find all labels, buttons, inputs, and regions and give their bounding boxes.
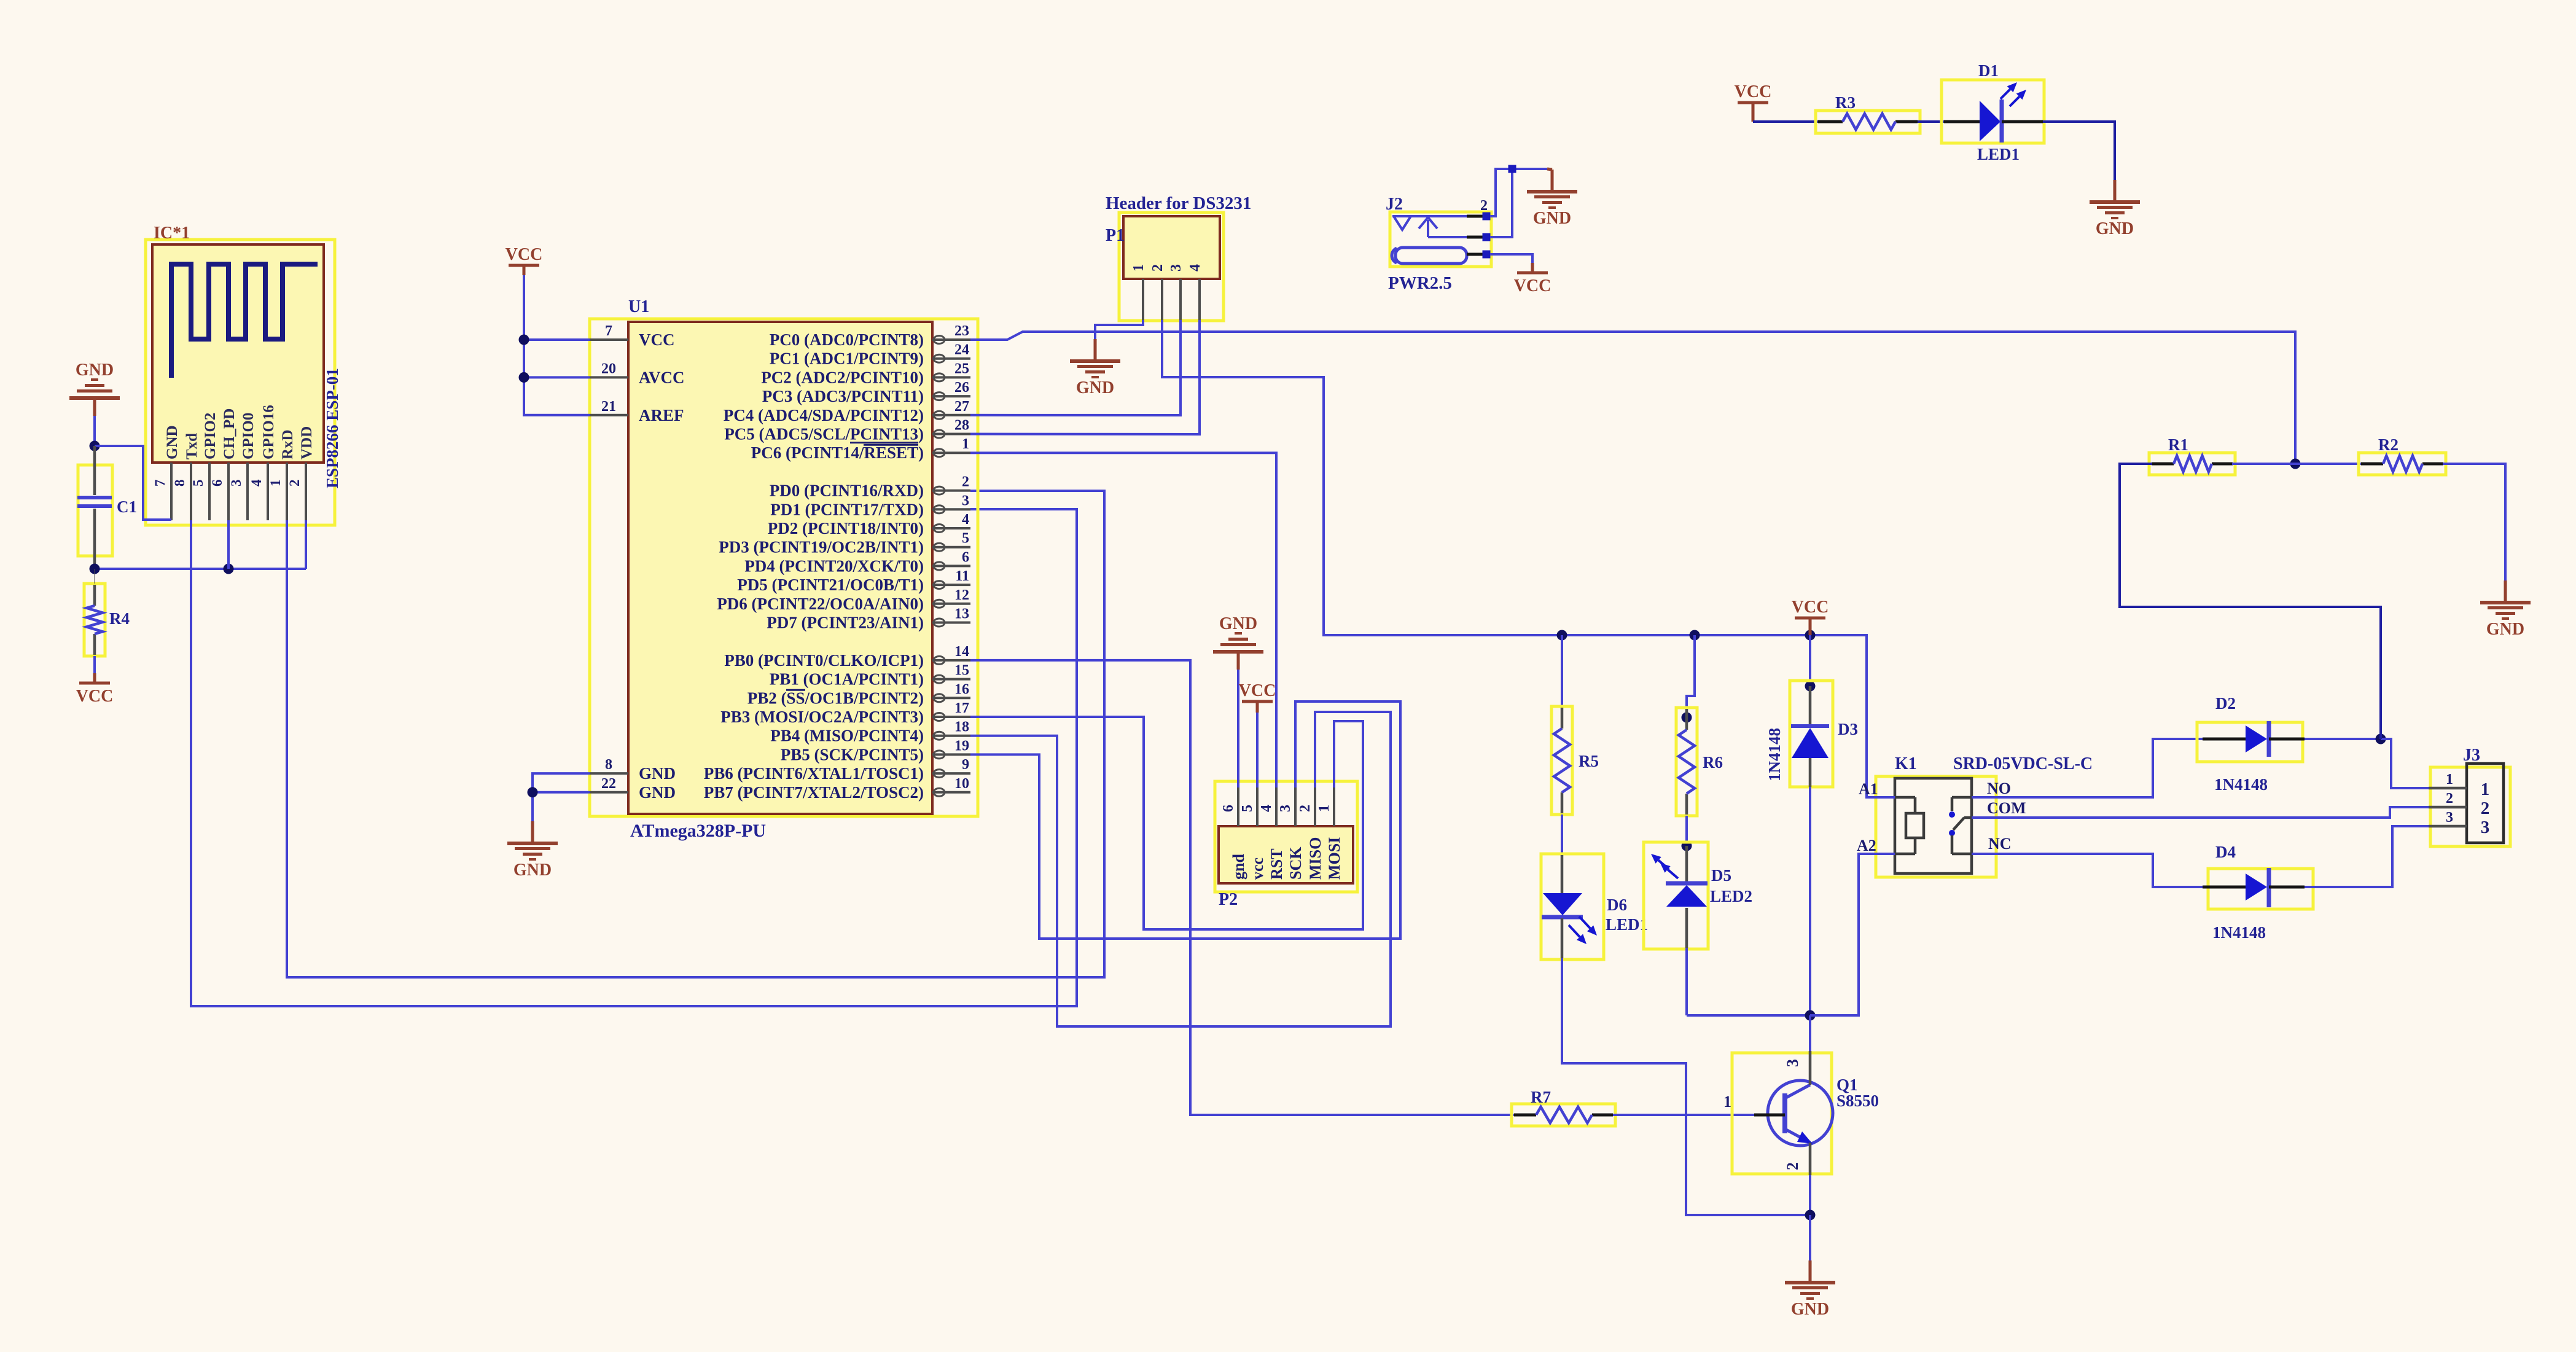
wire NC to D4 <box>1972 854 2203 887</box>
wire R7 to Q1 base <box>1613 1114 1754 1116</box>
node GND/pin22 <box>528 787 538 797</box>
svg-text:VCC: VCC <box>1792 598 1829 617</box>
svg-text:LED1: LED1 <box>1977 145 2020 163</box>
svg-text:4: 4 <box>249 479 264 486</box>
svg-text:8: 8 <box>605 757 612 773</box>
ESP pin 4 (GPIO16) <box>249 405 277 520</box>
svg-text:VCC: VCC <box>1239 681 1276 700</box>
svg-text:GND: GND <box>76 361 114 380</box>
U1 pin 18 PB4 <box>770 719 970 745</box>
wire J2 pin1 to VCC <box>1490 254 1532 264</box>
ground below P1 <box>1070 339 1120 397</box>
node VCC/pin20 <box>519 372 529 383</box>
svg-text:2: 2 <box>2481 799 2490 818</box>
U1 pin 8 GND <box>590 757 676 783</box>
svg-text:1: 1 <box>1723 1093 1731 1111</box>
wire emitter node rail <box>1687 1014 1859 1017</box>
svg-text:4: 4 <box>962 512 969 528</box>
svg-text:GPIO16: GPIO16 <box>260 405 277 459</box>
svg-text:GPIO2: GPIO2 <box>202 413 219 459</box>
svg-text:4: 4 <box>1259 805 1274 812</box>
svg-text:5: 5 <box>962 531 969 547</box>
U1 pin 9 PB6 <box>704 757 970 783</box>
wire emitter to node <box>1809 1015 1811 1051</box>
wire collector node to ground <box>1809 1215 1811 1260</box>
P1 pin 1 <box>1131 264 1147 320</box>
wire D6 to collector node <box>1562 958 1810 1215</box>
svg-text:7: 7 <box>152 480 168 487</box>
svg-text:13: 13 <box>954 606 969 622</box>
wire P2 MOSI to PB3 <box>970 717 1363 929</box>
svg-text:LED2: LED2 <box>1710 887 1752 905</box>
resistor R1 <box>2149 436 2235 475</box>
node VCC/pin7 <box>519 335 529 345</box>
svg-text:SCK: SCK <box>1287 846 1305 880</box>
svg-text:AREF: AREF <box>639 406 684 424</box>
relay K1 highlight <box>1876 776 1996 877</box>
svg-text:1: 1 <box>2481 780 2490 799</box>
underline on PCINT13 (PC5) <box>850 442 918 444</box>
U1 pin 4 PD2 <box>768 512 970 537</box>
wire P2 SCK to PB5 <box>970 701 1400 939</box>
svg-text:5: 5 <box>1239 805 1255 812</box>
ground for J2 <box>1547 169 1552 170</box>
svg-text:R2: R2 <box>2378 436 2398 454</box>
U1 pin 28 PC5 <box>724 418 970 444</box>
P2 pin 1 (MOSI) <box>1316 787 1343 880</box>
ESP pin 7 (GND) <box>152 425 181 520</box>
U1 pin 13 PD7 <box>767 606 970 632</box>
svg-text:11: 11 <box>955 568 969 584</box>
wire R4 top lead <box>94 569 95 584</box>
svg-text:R4: R4 <box>109 609 130 628</box>
ground below Q1 <box>1785 1260 1835 1319</box>
wire D5 to emitter node <box>1685 948 1688 1015</box>
svg-text:6: 6 <box>962 549 969 565</box>
svg-text:PB7 (PCINT7/XTAL2/TOSC2): PB7 (PCINT7/XTAL2/TOSC2) <box>704 783 924 802</box>
header P2 highlight <box>1215 781 1357 892</box>
node rail/R5 <box>1557 630 1567 641</box>
header P1 (DS3231) highlight <box>1119 213 1224 321</box>
capacitor C1 <box>77 446 137 569</box>
P2 pin 6 (gnd) <box>1220 787 1247 880</box>
U1 pin 24 PC1 <box>770 342 970 368</box>
svg-text:6: 6 <box>1220 805 1236 812</box>
wire P2 gnd pin <box>1237 670 1239 787</box>
wire VCC/CH_PD/VDD node rail <box>95 568 306 570</box>
LED D5 <box>1644 842 1752 949</box>
U1 pin 27 PC4 <box>724 399 970 424</box>
svg-text:16: 16 <box>954 681 969 697</box>
ground below LED D1 <box>2090 180 2140 238</box>
U1 pin 25 PC2 <box>761 361 970 386</box>
wire COM to J3 pin2 <box>1972 807 2429 818</box>
wire P2 vcc pin <box>1256 713 1259 787</box>
svg-text:14: 14 <box>954 644 969 660</box>
svg-text:CH_PD: CH_PD <box>221 408 238 459</box>
wire VCC rail to U1 pins 7/20/21 <box>523 265 526 275</box>
J3 pin 2 <box>2429 791 2489 818</box>
svg-text:18: 18 <box>954 719 969 735</box>
svg-text:SRD-05VDC-SL-C: SRD-05VDC-SL-C <box>1953 754 2093 773</box>
svg-text:9: 9 <box>962 757 969 773</box>
svg-text:4: 4 <box>1187 264 1203 272</box>
node C1/R4 junction <box>90 564 100 574</box>
svg-text:GPIO0: GPIO0 <box>240 413 257 459</box>
svg-text:3: 3 <box>962 493 969 509</box>
svg-text:R6: R6 <box>1703 753 1723 772</box>
connector J3 highlight <box>2430 767 2510 846</box>
U1 pin 12 PD6 <box>717 587 970 613</box>
wire D3 to emitter node <box>1809 787 1811 1015</box>
svg-text:PD6 (PCINT22/OC0A/AIN0): PD6 (PCINT22/OC0A/AIN0) <box>717 595 924 613</box>
ESP pin 3 (GPIO0) <box>228 413 257 520</box>
svg-text:GND: GND <box>1533 209 1571 228</box>
wire P1 pin2 to LED/relay rail <box>1162 320 1562 635</box>
J2 pin 1 <box>1467 253 1483 256</box>
svg-text:26: 26 <box>954 380 969 396</box>
svg-text:C1: C1 <box>117 498 137 516</box>
svg-text:2: 2 <box>1150 264 1166 272</box>
svg-text:1: 1 <box>268 480 283 487</box>
wire R5 to D6 <box>1561 815 1563 855</box>
wire PB0 to R7 <box>970 660 1514 1115</box>
svg-text:VCC: VCC <box>505 245 543 264</box>
P1 pin 4 <box>1187 264 1203 320</box>
ground GND near ESP <box>69 361 120 416</box>
U1 pin 21 AREF <box>590 399 684 424</box>
svg-text:8: 8 <box>172 480 187 487</box>
ATmega328P U1 highlight box <box>590 319 978 816</box>
svg-text:1N4148: 1N4148 <box>1765 728 1784 781</box>
P2 pin 4 (RST) <box>1259 787 1286 880</box>
svg-text:S8550: S8550 <box>1836 1092 1879 1110</box>
U1 pin 5 PD3 <box>719 531 970 557</box>
VCC supply below J2 <box>1514 263 1551 295</box>
svg-text:24: 24 <box>954 342 969 358</box>
svg-text:K1: K1 <box>1895 754 1917 773</box>
node J2 ground junction <box>1509 165 1516 173</box>
wire VCC to R3 <box>1753 120 1818 123</box>
svg-text:27: 27 <box>954 399 969 415</box>
diode D3 1N4148 <box>1765 681 1858 787</box>
ground right of J2 <box>1527 170 1577 228</box>
VCC supply above P2 <box>1239 681 1276 711</box>
wire ESP RxD to PD0 <box>287 491 1104 977</box>
svg-text:vcc: vcc <box>1249 858 1267 880</box>
svg-text:1: 1 <box>1316 805 1332 812</box>
svg-text:D1: D1 <box>1978 61 1999 80</box>
svg-text:PC4 (ADC4/SDA/PCINT12): PC4 (ADC4/SDA/PCINT12) <box>724 406 924 424</box>
wire D4 to J3 pin3 <box>2305 826 2429 887</box>
svg-text:GND: GND <box>2486 620 2524 639</box>
svg-text:2: 2 <box>287 480 302 487</box>
U1 pin 17 PB3 <box>720 700 970 726</box>
VCC supply on relay rail <box>1792 598 1829 628</box>
svg-text:28: 28 <box>954 418 969 434</box>
svg-text:3: 3 <box>1168 264 1184 272</box>
svg-text:GND: GND <box>639 764 676 783</box>
resistor R2 <box>2359 436 2446 475</box>
svg-text:PD0 (PCINT16/RXD): PD0 (PCINT16/RXD) <box>770 482 924 500</box>
svg-text:Header for DS3231: Header for DS3231 <box>1106 193 1251 213</box>
svg-text:2: 2 <box>1297 805 1313 812</box>
U1 pin 16 PB2 <box>747 681 970 707</box>
svg-text:3: 3 <box>2446 810 2453 826</box>
svg-text:J2: J2 <box>1386 195 1403 214</box>
svg-text:A1: A1 <box>1859 780 1878 798</box>
svg-text:PB4 (MISO/PCINT4): PB4 (MISO/PCINT4) <box>770 727 924 745</box>
svg-text:1: 1 <box>2446 772 2453 787</box>
VCC supply top right <box>1735 82 1772 112</box>
svg-text:PD2 (PCINT18/INT0): PD2 (PCINT18/INT0) <box>768 519 924 537</box>
node CH_PD junction <box>224 564 234 574</box>
U1 pin 23 PC0 <box>770 323 970 349</box>
resistor R3 <box>1816 93 1920 133</box>
svg-text:gnd: gnd <box>1230 854 1247 880</box>
relay K1 body <box>1895 778 1972 873</box>
P1 pin 2 <box>1150 264 1166 320</box>
svg-text:PB5 (SCK/PCINT5): PB5 (SCK/PCINT5) <box>781 745 924 764</box>
header P2 body <box>1219 826 1353 883</box>
svg-text:MOSI: MOSI <box>1325 837 1343 880</box>
P2 pin 5 (vcc) <box>1239 787 1267 880</box>
ESP8266 module IC*1 highlight box <box>146 240 335 525</box>
svg-text:GND: GND <box>2096 219 2134 238</box>
wire J2 pin3 to ground net <box>1490 169 1512 237</box>
wire rail to R6 <box>1687 635 1695 717</box>
wire D1 to ground <box>2043 122 2115 180</box>
svg-text:PD4 (PCINT20/XCK/T0): PD4 (PCINT20/XCK/T0) <box>744 557 924 575</box>
P2 pin 3 (SCK) <box>1278 787 1305 880</box>
U1 pin 2 PD0 <box>770 474 970 500</box>
svg-text:PC1 (ADC1/PCINT9): PC1 (ADC1/PCINT9) <box>770 350 924 368</box>
svg-text:D5: D5 <box>1711 866 1731 885</box>
node rail/VCC/D3 <box>1805 630 1816 641</box>
node D2/R1/J3 pin1 <box>2376 734 2386 744</box>
wire R1 left loop to D2 node <box>2120 464 2381 739</box>
svg-text:PD7 (PCINT23/AIN1): PD7 (PCINT23/AIN1) <box>767 614 924 632</box>
svg-text:1N4148: 1N4148 <box>2214 775 2268 794</box>
svg-text:PC5 (ADC5/SCL/PCINT13): PC5 (ADC5/SCL/PCINT13) <box>724 425 924 444</box>
svg-text:IC*1: IC*1 <box>154 224 190 243</box>
svg-text:2: 2 <box>1784 1162 1801 1170</box>
U1 pin 6 PD4 <box>744 549 970 575</box>
U1 pin 20 AVCC <box>590 361 685 386</box>
U1 pin 19 PB5 <box>781 738 970 764</box>
svg-text:D6: D6 <box>1607 896 1627 914</box>
svg-text:PB3 (MOSI/OC2A/PCINT3): PB3 (MOSI/OC2A/PCINT3) <box>720 708 924 726</box>
svg-text:PD1 (PCINT17/TXD): PD1 (PCINT17/TXD) <box>770 500 924 518</box>
wire R2 to ground <box>2443 464 2505 580</box>
U1 pin 10 PB7 <box>704 776 970 802</box>
node emitter/D3/D5/A2 <box>1805 1010 1816 1021</box>
resistor R5 <box>1551 706 1599 815</box>
ESP8266 antenna meander <box>171 264 318 378</box>
svg-text:GND: GND <box>639 783 676 802</box>
svg-text:RxD: RxD <box>279 429 296 459</box>
J3 pin 1 <box>2429 772 2489 799</box>
svg-text:1N4148: 1N4148 <box>2212 923 2266 942</box>
svg-text:GND: GND <box>1791 1300 1829 1319</box>
svg-text:2: 2 <box>2446 791 2453 807</box>
svg-text:R5: R5 <box>1579 752 1599 770</box>
U1 pin 14 PB0 <box>724 644 970 670</box>
svg-text:VCC: VCC <box>1514 276 1551 295</box>
wire node down to J3 pin1 <box>2381 739 2429 788</box>
svg-text:PB1 (OC1A/PCINT1): PB1 (OC1A/PCINT1) <box>770 670 924 689</box>
svg-text:PD3 (PCINT19/OC2B/INT1): PD3 (PCINT19/OC2B/INT1) <box>719 538 924 557</box>
svg-text:PD5 (PCINT21/OC0B/T1): PD5 (PCINT21/OC0B/T1) <box>737 576 924 594</box>
ESP pin 6 (CH_PD) <box>209 408 238 520</box>
J2 pin 3 <box>1467 236 1483 239</box>
P2 pin 2 (MISO) <box>1297 787 1324 880</box>
node rail/R6 <box>1690 630 1700 641</box>
svg-text:20: 20 <box>601 361 616 377</box>
svg-text:PB6 (PCINT6/XTAL1/TOSC1): PB6 (PCINT6/XTAL1/TOSC1) <box>704 764 924 783</box>
LED D1 <box>1942 61 2044 163</box>
wire P1 pin3 to PC4 <box>970 320 1181 415</box>
svg-text:Txd: Txd <box>184 433 200 459</box>
wire to pin 7 <box>524 338 590 341</box>
svg-text:25: 25 <box>954 361 969 377</box>
svg-text:R3: R3 <box>1835 93 1856 112</box>
ESP pin 8 (Txd) <box>172 433 200 520</box>
svg-text:15: 15 <box>954 663 969 679</box>
overline on RESET (PC6) <box>864 444 918 446</box>
diode D2 1N4148 <box>2197 694 2305 794</box>
resistor R7 <box>1512 1088 1615 1126</box>
wire NO to D2 <box>1972 739 2203 797</box>
wire P1 pin1 to ground <box>1095 320 1143 339</box>
wire PC0 long net to R1/R2 <box>970 332 2295 464</box>
svg-text:21: 21 <box>601 399 616 415</box>
svg-text:D3: D3 <box>1838 720 1858 738</box>
svg-text:LED1: LED1 <box>1606 915 1648 934</box>
node R6 top <box>1682 713 1692 723</box>
svg-text:22: 22 <box>601 776 616 792</box>
ground above P2 <box>1213 614 1263 670</box>
svg-text:3: 3 <box>2481 818 2490 837</box>
svg-text:PC3 (ADC3/PCINT11): PC3 (ADC3/PCINT11) <box>762 387 924 405</box>
ESP pin 2 (VDD) <box>287 426 315 520</box>
connector J3 body <box>2467 764 2504 843</box>
U1 pin 1 PC6 <box>751 436 970 462</box>
svg-text:3: 3 <box>1784 1059 1801 1067</box>
transistor Q1 S8550 <box>1723 1051 1879 1175</box>
J3 pin 3 <box>2429 810 2489 837</box>
U1 pin 15 PB1 <box>770 663 970 689</box>
svg-text:VDD: VDD <box>299 426 315 459</box>
header P1 body <box>1123 216 1220 279</box>
svg-text:U1: U1 <box>628 297 649 316</box>
node D5 top <box>1682 841 1692 851</box>
wire P2 RST to PC6 <box>970 453 1276 787</box>
svg-text:10: 10 <box>954 776 969 792</box>
overline on SS (PB2) <box>786 689 805 691</box>
wire P1 pin4 to PC5 <box>970 320 1200 434</box>
svg-text:PC0 (ADC0/PCINT8): PC0 (ADC0/PCINT8) <box>770 330 924 349</box>
J2 pin 2 <box>1467 215 1483 218</box>
node R1/R2 junction <box>2290 459 2301 469</box>
svg-text:P2: P2 <box>1219 890 1238 909</box>
svg-text:12: 12 <box>954 587 969 603</box>
U1 pin 11 PD5 <box>737 568 970 594</box>
wire GND stem to junction <box>93 416 96 446</box>
power jack J2 symbol <box>1392 216 1467 264</box>
svg-text:NC: NC <box>1988 835 2012 853</box>
node D3 top <box>1805 681 1816 692</box>
wire R4 to VCC <box>93 656 96 673</box>
svg-text:2: 2 <box>962 474 969 490</box>
svg-text:1: 1 <box>1131 264 1147 272</box>
wire ESP Txd to PD1 <box>191 509 1077 1006</box>
svg-text:R1: R1 <box>2168 436 2188 454</box>
svg-text:VCC: VCC <box>1735 82 1772 101</box>
node collector junction <box>1805 1210 1816 1221</box>
ATmega328P U1 body <box>628 322 932 814</box>
svg-text:17: 17 <box>954 700 969 716</box>
svg-text:RST: RST <box>1268 848 1286 880</box>
ESP8266 module IC*1 body <box>152 244 324 463</box>
svg-text:VCC: VCC <box>76 687 114 706</box>
svg-text:A2: A2 <box>1857 837 1876 854</box>
wire VDD pin drop <box>305 520 307 569</box>
ground below U1 <box>507 821 558 880</box>
diode D4 1N4148 <box>2203 843 2313 942</box>
svg-text:VCC: VCC <box>639 330 675 349</box>
svg-text:3: 3 <box>1278 805 1294 812</box>
svg-text:J3: J3 <box>2463 746 2480 765</box>
power jack J2 highlight <box>1390 212 1491 267</box>
wire rail to R5 <box>1561 635 1563 708</box>
ground below R2 <box>2480 580 2531 639</box>
wire R6 to D5 <box>1685 816 1688 846</box>
wire J2 pin2 to ground <box>1490 169 1547 216</box>
svg-text:PWR2.5: PWR2.5 <box>1388 273 1452 293</box>
wire P2 MISO to PB4 <box>970 712 1391 1026</box>
wire D2 to J3 node <box>2305 738 2381 740</box>
wire A1 stub <box>1867 796 1895 799</box>
svg-text:PB2 (SS/OC1B/PCINT2): PB2 (SS/OC1B/PCINT2) <box>747 689 924 707</box>
svg-text:GND: GND <box>1219 614 1257 633</box>
U1 pin 26 PC3 <box>762 380 970 405</box>
svg-text:ESP8266 ESP-01: ESP8266 ESP-01 <box>323 368 342 488</box>
svg-text:R7: R7 <box>1531 1088 1551 1106</box>
node ESP-GND junction <box>90 441 100 451</box>
svg-text:GND: GND <box>1076 378 1114 397</box>
svg-text:5: 5 <box>190 480 206 487</box>
wire VCC rail (R5/R6/D3/K1) <box>1562 635 1895 797</box>
svg-text:GND: GND <box>513 861 552 880</box>
svg-text:3: 3 <box>228 480 244 487</box>
svg-text:ATmega328P-PU: ATmega328P-PU <box>630 821 766 841</box>
ESP pin 1 (RxD) <box>268 429 296 520</box>
wire R3 to D1 <box>1918 120 1948 123</box>
svg-text:P1: P1 <box>1106 226 1125 245</box>
svg-text:2: 2 <box>1480 198 1488 214</box>
svg-text:19: 19 <box>954 738 969 754</box>
svg-text:NO: NO <box>1987 780 2011 797</box>
ESP pin 5 (GPIO2) <box>190 413 219 520</box>
svg-text:MISO: MISO <box>1306 837 1324 880</box>
U1 pin 3 PD1 <box>770 493 970 518</box>
wire U1 GND pins 8/22 to ground <box>533 773 590 821</box>
resistor R6 <box>1676 708 1723 816</box>
svg-text:6: 6 <box>209 480 225 487</box>
wire junction to R2 <box>2293 463 2362 465</box>
svg-text:1: 1 <box>962 436 969 452</box>
